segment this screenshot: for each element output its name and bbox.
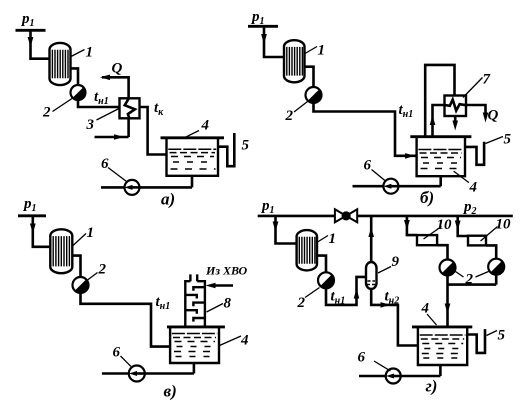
arrow Q down (b) [483, 113, 489, 123]
label 10 right (g) [481, 217, 512, 242]
tank 4 (g) [418, 327, 467, 365]
svg-text:7: 7 [483, 72, 491, 88]
label 2 (v) [88, 262, 107, 281]
pump 6 (a) [125, 180, 140, 195]
steam trap 2 (v) [73, 277, 89, 293]
flow arrow down (a) [28, 37, 34, 47]
wire vessel 1 to trap 2 (b) [305, 67, 314, 87]
label 6 (v) [113, 345, 132, 367]
label 10 left (g) [424, 217, 453, 239]
arrow up into expander (g) [354, 289, 360, 299]
vent condenser 7 (b) [445, 96, 467, 117]
steam trap 2 (a) [71, 85, 86, 100]
tank 4 (a) [167, 138, 219, 176]
svg-text:4: 4 [240, 333, 249, 349]
label 9 (g) [378, 254, 400, 273]
wire expander 9 to tank 4 (g) [371, 289, 418, 346]
svg-text:а): а) [161, 190, 175, 209]
heat exchanger 3 (a) [120, 98, 140, 118]
steam header (g) [258, 215, 513, 218]
deaerator column 8 (v) [185, 274, 205, 327]
water in tank 4 (a) [168, 149, 216, 169]
svg-text:4: 4 [469, 180, 478, 196]
wire tank 4 to pump 6 (v) [102, 363, 194, 374]
supply main bar (b) [248, 25, 278, 28]
label 6 (a) [101, 156, 127, 182]
svg-text:Q: Q [488, 108, 499, 124]
wire trap 2 to tank 4 (v) [81, 293, 171, 347]
tank 4 (v) [170, 327, 219, 363]
flow arrow down (g) [273, 222, 279, 232]
arrow into tank (b) [405, 153, 415, 159]
label 2 (a) [42, 99, 72, 121]
label 6 (g) [358, 350, 391, 372]
label 5 (b) [486, 132, 512, 148]
wire traps join to tank 4 (g) [448, 275, 497, 327]
svg-text:1: 1 [86, 45, 94, 61]
svg-text:5: 5 [242, 138, 250, 154]
wire heat output Q (b) [466, 105, 486, 113]
arrow up riser (g) [368, 227, 374, 237]
svg-text:Из ХВО: Из ХВО [205, 264, 247, 278]
water in tank 4 (g) [420, 335, 466, 358]
vessel 1 (g) steam cooler [297, 230, 317, 270]
svg-text:6: 6 [364, 158, 372, 174]
flow arrow down branch left (g) [404, 220, 410, 230]
flow arrow down branch right (g) [455, 221, 461, 231]
svg-text:2: 2 [98, 262, 107, 278]
wire tank 4 to pump 6 (a) [101, 176, 192, 188]
wire heat output Q (a) [102, 77, 129, 98]
wire header to consumer 10 left (g) [407, 216, 417, 235]
svg-text:4: 4 [201, 118, 210, 134]
wire consumer 10 left to trap (g) [437, 245, 447, 259]
label 1 (v) [73, 225, 94, 246]
label 4 (b) [454, 171, 478, 195]
svg-text:10: 10 [496, 217, 512, 233]
steam trap 2 (b) [306, 87, 322, 103]
svg-text:1: 1 [329, 231, 337, 247]
svg-text:1: 1 [87, 225, 95, 241]
pump 6 (g) [386, 369, 401, 384]
flow arrow down (b) [261, 34, 267, 44]
heat consumer 10 left (g) [417, 235, 437, 245]
svg-text:5: 5 [504, 132, 512, 148]
label 4 (v) [220, 333, 250, 349]
svg-text:2: 2 [285, 108, 294, 124]
svg-text:10: 10 [437, 217, 453, 233]
arrow down into tank (g) [445, 304, 451, 314]
svg-text:5: 5 [498, 328, 506, 344]
label 1 (a) [71, 45, 93, 61]
tank 4 rim (a) [161, 136, 225, 139]
supply main bar (a) [16, 29, 46, 32]
steam trap 2 (g right) [488, 259, 504, 275]
label 2 (g left) [297, 288, 320, 312]
svg-text:б): б) [420, 188, 434, 207]
label 1 (g) [318, 231, 337, 247]
tank 4 rim (g) [412, 325, 472, 328]
wire vessel 1 to trap 2 (a) [71, 68, 79, 85]
overflow pipe 5 (b) [465, 142, 484, 165]
flash expander 9 (g) [366, 262, 377, 289]
wire tank 4 to pump 6 (g) [359, 365, 440, 376]
svg-text:2: 2 [297, 295, 306, 311]
label 6 (b) [364, 158, 386, 182]
label 2 (b) [285, 102, 308, 125]
flash steam riser to header (g) [370, 216, 373, 262]
overflow pipe 5 (a) [218, 133, 234, 166]
arrow Q out (a) [100, 75, 110, 81]
label 5 (g) [487, 328, 506, 344]
makeup water arrow into column 8 (v) [215, 284, 233, 287]
label 7 (b) [463, 72, 491, 98]
vent pipe from tank to condenser 7 (b) [425, 65, 454, 137]
wire vessel 1 to trap 2 (g) [317, 256, 326, 273]
vapor line with up arrow (b) [433, 105, 445, 137]
vessel 1 (b) steam cooler [284, 40, 305, 82]
svg-text:2: 2 [42, 105, 51, 121]
pump 6 (v) [129, 366, 145, 382]
svg-text:Q: Q [112, 61, 123, 77]
svg-text:6: 6 [113, 345, 121, 361]
arrow tn2 right (g) [381, 302, 391, 308]
arrow up vapor (b) [430, 115, 436, 125]
tank 4 (b) [417, 137, 465, 177]
vessel 1 (a) steam cooler [50, 43, 71, 85]
overflow pipe 5 (g) [467, 329, 485, 353]
arrow down condensate (b) [452, 121, 458, 131]
wire tank 4 to pump 6 (b) [353, 176, 441, 186]
wire header to consumer 10 right (g) [458, 216, 468, 236]
pump 6 (b) [383, 179, 398, 194]
flow arrow down (v) [30, 224, 36, 234]
label 2 (g traps pair) [456, 272, 489, 288]
heat consumer 10 right (g) [468, 236, 486, 246]
svg-text:1: 1 [318, 43, 326, 59]
wire heater 3 to tank 4 (a) [140, 107, 167, 155]
water in tank 4 (v) [172, 334, 217, 357]
wire supply drop to vessel 1 (a) [31, 30, 50, 58]
wire header to vessel 1 (g) [276, 216, 297, 244]
arrow inlet (a) [114, 134, 124, 140]
label 8 (v) [207, 296, 232, 313]
label 3 (a) [86, 109, 120, 134]
wire supply drop to vessel 1 (b) [264, 26, 284, 57]
label 4 (a) [185, 118, 210, 138]
svg-text:в): в) [164, 382, 177, 401]
svg-text:6: 6 [358, 350, 366, 366]
wire heated medium inlet (a) [95, 118, 129, 137]
wire consumer 10 right to trap (g) [486, 245, 496, 258]
wire vessel 1 to trap 2 (v) [72, 256, 80, 277]
svg-text:3: 3 [86, 117, 95, 133]
wire trap 2 to expander 9 (g) [326, 277, 366, 305]
condensate return wire from 7 to tank (b) [454, 116, 457, 122]
tank 4 rim (b) [410, 135, 471, 138]
svg-text:8: 8 [224, 296, 232, 312]
wire trap 2 to heater 3 (a) [78, 100, 120, 107]
svg-text:9: 9 [392, 254, 400, 270]
svg-text:г): г) [426, 377, 438, 396]
wire supply drop to vessel 1 (v) [33, 216, 51, 247]
steam trap 2 (g mid) [440, 260, 456, 276]
water in tank 4 (b) [418, 150, 463, 169]
valve on header (g) [335, 209, 357, 222]
tank 4 rim (v) [167, 325, 225, 328]
svg-text:4: 4 [421, 301, 430, 317]
svg-text:6: 6 [101, 156, 109, 172]
label 1 (b) [305, 43, 325, 59]
supply main bar (v) [18, 214, 46, 217]
vessel 1 (v) steam cooler [50, 229, 72, 273]
label 4 (g) [421, 301, 437, 326]
steam trap 2 (g left) [318, 272, 334, 288]
wire trap 2 to tank 4 (b) [314, 103, 416, 156]
